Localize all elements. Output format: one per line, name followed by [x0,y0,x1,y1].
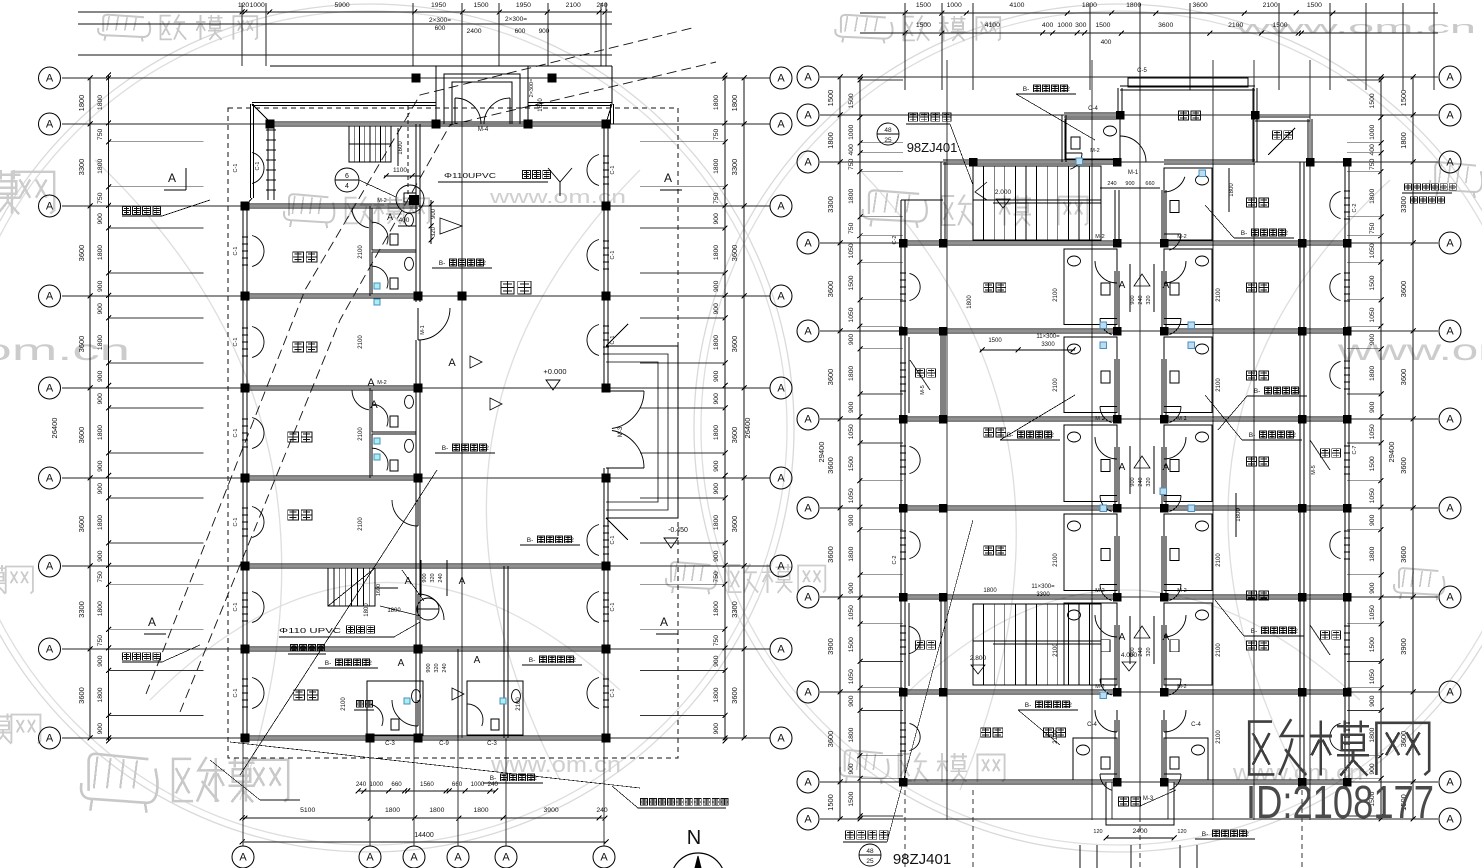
svg-text:A: A [46,733,54,745]
svg-text:3600: 3600 [77,336,86,353]
svg-text:120: 120 [1177,829,1186,835]
svg-text:1000: 1000 [471,781,485,788]
right plan top doors [1119,136,1121,162]
svg-text:1800: 1800 [473,807,488,814]
svg-text:900: 900 [97,550,104,562]
left plan window east at y340 [587,325,599,356]
svg-text:C-5: C-5 [1137,68,1147,74]
svg-text:3600: 3600 [826,546,835,563]
svg-text:2100: 2100 [1053,553,1059,567]
svg-text:1050: 1050 [1369,307,1376,322]
svg-text:1800: 1800 [983,588,997,594]
right plan balloon 48-25 top [877,123,899,145]
svg-text:A: A [398,658,405,669]
svg-text:A: A [1119,462,1126,473]
svg-text:A: A [1446,110,1454,122]
svg-text:C-1: C-1 [233,247,239,256]
svg-text:A: A [46,201,54,213]
left plan dim chain fine east [724,75,726,741]
svg-text:2: 2 [1245,831,1249,838]
right plan room label kefang 1258,292 [1247,283,1257,292]
svg-text:A: A [777,383,785,395]
svg-text:1560: 1560 [420,781,434,788]
svg-text:120: 120 [238,2,250,9]
svg-text:2: 2 [1294,628,1298,635]
left plan dim chain bottom mid [242,817,605,819]
right plan bath top [1065,119,1120,159]
svg-text:1500: 1500 [1399,90,1408,107]
svg-text:3300: 3300 [77,601,86,618]
right plan room label kefang 1190,120 [1179,111,1189,120]
svg-text:2×300=: 2×300= [429,17,451,24]
svg-text:900: 900 [1369,763,1376,775]
svg-text:2: 2 [482,260,486,267]
svg-text:B-: B- [527,537,534,544]
svg-text:3600: 3600 [730,427,739,444]
svg-text:A: A [1446,687,1454,699]
svg-text:M-1: M-1 [1128,170,1139,176]
svg-text:400: 400 [399,217,410,224]
svg-text:M-2: M-2 [1095,684,1104,690]
svg-text:3600: 3600 [1399,546,1408,563]
svg-text:900: 900 [713,460,720,472]
svg-text:C-1: C-1 [233,518,239,527]
svg-text:3900: 3900 [544,807,559,814]
svg-text:M-2: M-2 [1090,148,1099,154]
svg-text:29400: 29400 [817,442,826,463]
svg-text:1800: 1800 [713,687,720,702]
svg-text:1050: 1050 [848,307,855,322]
left plan bath bottom b [467,681,523,735]
svg-text:1800: 1800 [713,515,720,530]
svg-text:C-1: C-1 [233,603,239,612]
svg-text:1800: 1800 [848,366,855,381]
svg-text:1000: 1000 [848,125,855,140]
svg-text:A: A [777,119,785,131]
right plan room label kefang 1258,207 [1247,198,1257,207]
right plan row wall y331 east [1164,328,1347,330]
left plan stair lower [328,568,375,606]
svg-text:1500: 1500 [1272,22,1287,29]
left plan bath 2a [372,390,416,432]
left plan misc diagonal [240,470,437,775]
svg-text:A: A [660,615,668,629]
svg-text:900: 900 [1125,181,1134,187]
svg-text:240: 240 [1138,647,1144,656]
left plan detail balloon 6/4 [335,168,359,192]
right plan top balcony [1255,116,1310,118]
left plan room label kefang 306,700 [294,690,305,700]
svg-text:2: 2 [533,775,537,782]
svg-text:750: 750 [1369,158,1376,170]
svg-text:48: 48 [884,127,892,134]
svg-text:1800: 1800 [97,515,104,530]
svg-text:M-2: M-2 [377,198,386,204]
left plan nw eave outline [252,102,436,104]
watermark sofa top-mid [841,15,886,33]
svg-text:3300: 3300 [1399,196,1408,213]
svg-text:1800: 1800 [826,132,835,149]
watermark logo gap-mid [729,565,742,592]
svg-text:900: 900 [1369,334,1376,346]
svg-text:M-2: M-2 [1095,234,1104,240]
svg-text:1800: 1800 [429,807,444,814]
svg-text:1000: 1000 [1057,22,1072,29]
svg-text:900: 900 [431,208,437,219]
left plan window C-1 at y607 [252,592,264,623]
left plan window C-1 at y342 [252,327,264,358]
svg-text:1800: 1800 [97,245,104,260]
svg-text:1000: 1000 [1369,125,1376,140]
svg-text:240: 240 [596,807,608,814]
right plan top dims small [1100,187,1160,189]
watermark swoosh left [95,160,282,800]
left plan dim total bottom [242,841,606,843]
svg-text:98ZJ401: 98ZJ401 [907,140,958,155]
svg-text:1050: 1050 [1369,243,1376,258]
right plan balcony east 2 [1321,631,1330,639]
svg-text:C-1: C-1 [610,251,616,260]
svg-text:1800: 1800 [364,603,370,617]
svg-text:2.000: 2.000 [995,189,1012,196]
left plan grid vline x462 [461,66,463,738]
right plan east extension stubs [1347,79,1381,81]
right plan room label kefang 1055,737 [1044,728,1054,737]
svg-text:2: 2 [1068,702,1072,709]
watermark sofa top-left [103,15,144,32]
watermark sofa mid-left-plan [289,194,328,215]
svg-text:C-1: C-1 [610,536,616,545]
svg-text:1500: 1500 [1369,275,1376,290]
svg-text:900: 900 [848,514,855,526]
right plan room label kefang 992,737 [981,728,991,737]
svg-text:C-1: C-1 [255,162,261,171]
svg-text:3600: 3600 [730,336,739,353]
svg-text:M-2: M-2 [1177,234,1186,240]
svg-text:A: A [46,473,54,485]
svg-text:3600: 3600 [730,687,739,704]
svg-text:240: 240 [1138,477,1144,486]
svg-text:2100: 2100 [358,427,364,441]
svg-text:300: 300 [1075,22,1087,29]
left plan horizontal grid lines [62,77,770,79]
right plan room label kefang 995,437 [984,428,994,437]
svg-text:900: 900 [848,334,855,346]
right plan interior grid vlines [946,60,948,820]
svg-text:A: A [1446,503,1454,515]
svg-text:A: A [1446,238,1454,250]
svg-text:B-: B- [529,657,536,664]
svg-text:320: 320 [1146,477,1152,486]
left plan window east at y607 [587,592,599,623]
svg-text:A: A [777,561,785,573]
svg-text:3600: 3600 [77,427,86,444]
svg-text:-0.450: -0.450 [668,527,688,534]
svg-text:A: A [804,814,812,826]
watermark sofa mid-right-plan [869,190,919,214]
svg-text:320: 320 [1146,295,1152,304]
watermark sofa gap-mid [671,562,710,582]
left plan room divider wall y566 [245,563,606,565]
svg-text:900: 900 [713,213,720,225]
svg-text:2: 2 [1297,388,1301,395]
left plan east door M-3 [606,390,644,392]
svg-text:29400: 29400 [1387,442,1396,463]
svg-text:3300: 3300 [77,159,86,176]
right plan row wall y331 west [903,328,1117,330]
left plan bath 2b [372,434,416,476]
left plan lobby label datang [501,281,514,294]
svg-text:A: A [46,291,54,303]
svg-text:www.om.cn: www.om.cn [1233,18,1476,37]
svg-text:2100: 2100 [1053,643,1059,657]
svg-text:M-2: M-2 [377,380,386,386]
svg-text:1800: 1800 [713,425,720,440]
svg-text:2×300=: 2×300= [505,16,527,23]
right plan top bath block [1061,115,1063,162]
svg-text:1800: 1800 [1369,366,1376,381]
svg-text:900: 900 [713,723,720,735]
watermark sofa bottom-left [89,754,149,791]
left plan canopy door M-4 [454,98,456,124]
svg-text:2100: 2100 [1053,730,1059,744]
left plan bottom axis circles [232,846,254,868]
svg-text:320: 320 [1146,647,1152,656]
svg-text:B-: B- [325,660,332,667]
right plan bath R y603 [1164,603,1212,685]
left plan note xiangjianshi5 a [123,207,131,215]
right plan bath bottom R [1164,738,1208,780]
svg-text:3600: 3600 [826,731,835,748]
left plan room divider wall y206 [245,203,418,205]
right plan row wall y243 east [1164,240,1347,242]
svg-text:900: 900 [848,695,855,707]
svg-text:B-: B- [1254,388,1261,395]
left plan room divider wall y649 [245,646,606,648]
svg-text:A: A [1446,414,1454,426]
svg-text:900: 900 [1369,401,1376,413]
right plan bath L y337 [1064,337,1117,412]
svg-text:A: A [804,72,812,84]
right plan row wall y692 east [1164,689,1347,691]
right plan bath L y249 [1064,249,1117,324]
right plan stair lower [973,604,1101,685]
svg-text:1800: 1800 [713,601,720,616]
svg-text:1800: 1800 [1229,183,1235,197]
svg-text:2100: 2100 [1216,553,1222,567]
left plan nw window bay [267,124,269,200]
svg-text:A: A [168,171,176,185]
svg-text:1500: 1500 [1307,2,1322,9]
svg-text:750: 750 [97,129,104,141]
watermark sofa right-edge [1399,568,1438,588]
svg-text:+0.000: +0.000 [543,367,566,376]
svg-text:1500: 1500 [916,22,931,29]
svg-text:1800: 1800 [848,546,855,561]
svg-text:2: 2 [368,660,372,667]
svg-text:900: 900 [426,663,432,672]
svg-text:3300: 3300 [730,601,739,618]
svg-text:1500: 1500 [988,338,1002,344]
svg-text:A: A [1163,462,1170,473]
svg-text:A: A [454,852,462,864]
svg-text:A: A [366,852,374,864]
svg-text:A: A [804,157,812,169]
svg-text:C-9: C-9 [439,741,449,747]
svg-text:2100: 2100 [1053,288,1059,302]
svg-text:Φ110 UPVC: Φ110 UPVC [279,628,341,635]
svg-text:A: A [804,592,812,604]
svg-text:B-: B- [1023,86,1030,93]
svg-text:98ZJ401: 98ZJ401 [893,851,951,868]
svg-text:1800: 1800 [1369,727,1376,742]
svg-text:2.800: 2.800 [970,655,987,662]
svg-text:A: A [600,852,608,864]
left plan east extension stubs [640,141,725,143]
svg-text:B-: B- [1241,230,1248,237]
left plan room label kefang 305,262 [293,252,304,262]
svg-text:3900: 3900 [826,638,835,655]
right plan balcony top label [1273,131,1282,139]
svg-text:2100: 2100 [516,697,522,711]
svg-text:1050: 1050 [848,243,855,258]
right plan row wall y508 east [1164,505,1347,507]
right plan note right edge [1405,184,1412,191]
left plan room divider wall y296 [245,293,418,295]
svg-text:2100: 2100 [358,335,364,349]
svg-text:A: A [474,655,481,666]
svg-text:1950: 1950 [431,2,446,9]
right plan bath R y425 [1164,425,1212,501]
svg-text:M-2: M-2 [1177,416,1186,422]
right plan corridor doors [1116,261,1118,283]
watermark logo mid-right-plan [942,196,956,225]
right plan top room east wall [1252,88,1254,162]
left plan lower vertical wall x506 [503,566,505,738]
svg-text:1500: 1500 [1369,637,1376,652]
svg-text:1500: 1500 [826,90,835,107]
svg-text:1100: 1100 [393,167,407,174]
svg-text:M-1: M-1 [420,325,426,334]
svg-text:A: A [1446,777,1454,789]
svg-text:1800: 1800 [967,295,973,309]
svg-text:600: 600 [435,25,446,32]
svg-text:A: A [1119,280,1126,291]
svg-text:2100: 2100 [1216,288,1222,302]
svg-text:1800: 1800 [385,807,400,814]
watermark logo top-left [161,16,172,40]
right plan room label kefang 995,292 [984,283,994,292]
svg-text:900: 900 [713,483,720,495]
svg-text:Φ110UPVC: Φ110UPVC [444,173,496,180]
svg-text:B-: B- [442,445,449,452]
svg-text:900: 900 [713,280,720,292]
right plan bath row2 [1164,168,1212,240]
svg-text:3300: 3300 [1036,592,1050,598]
left plan dim chain top [78,11,612,13]
svg-text:4100: 4100 [985,22,1000,29]
right plan room label kefang 1258,650 [1247,641,1257,650]
svg-text:1800: 1800 [713,159,720,174]
right plan stair west wall [940,162,942,243]
svg-text:900: 900 [97,460,104,472]
svg-text:A: A [448,357,456,369]
svg-text:900: 900 [97,280,104,292]
right plan south balcony [1106,782,1174,825]
svg-text:1800: 1800 [77,95,86,112]
svg-text:1050: 1050 [848,488,855,503]
svg-text:320: 320 [431,226,437,237]
right plan bath R y337 [1164,337,1212,412]
svg-text:1500: 1500 [848,275,855,290]
left plan dim chain totals west [89,78,91,738]
svg-text:1800: 1800 [713,95,720,110]
svg-text:w.om.cn: w.om.cn [0,334,130,367]
svg-text:1800: 1800 [1399,132,1408,149]
left plan room divider wall y478 [245,475,418,477]
svg-text:www.om: www.om [1336,334,1482,367]
svg-text:2400: 2400 [466,28,481,35]
brand logo omw [1249,722,1274,775]
right plan window arcs east [1330,191,1341,218]
right plan dim chain top row1 [860,12,1438,14]
svg-text:900: 900 [713,370,720,382]
left plan east wall upper [603,124,605,391]
right plan bath R y249 [1164,249,1212,324]
svg-text:1500: 1500 [916,2,931,9]
svg-text:2100: 2100 [358,245,364,259]
watermark logo top-mid [904,17,915,41]
svg-text:A: A [46,383,54,395]
right plan room label kefang 1258,466 [1247,457,1257,466]
svg-text:2100: 2100 [341,697,347,711]
right plan axis circles east [1439,66,1461,88]
svg-text:750: 750 [713,635,720,647]
svg-text:750: 750 [713,571,720,583]
svg-text:660: 660 [391,781,402,788]
svg-text:3600: 3600 [826,369,835,386]
svg-text:900: 900 [1130,295,1136,304]
svg-text:1500: 1500 [848,637,855,652]
right plan dim chain fine east [1380,77,1382,819]
left plan top vertical grid stubs [241,3,243,66]
right plan note huchuang top [909,113,918,121]
left plan top wall [270,121,606,123]
left plan window C-1 at y522 [252,507,264,538]
left plan bottom vertical grid stubs [242,738,244,846]
svg-text:240: 240 [488,781,499,788]
svg-text:C-1: C-1 [610,603,616,612]
svg-text:26400: 26400 [743,418,752,439]
svg-text:M-5: M-5 [920,385,926,394]
svg-text:400: 400 [1042,22,1054,29]
right plan row wall y508 west [903,505,1117,507]
left plan south wall [245,735,606,737]
svg-text:A: A [777,73,785,85]
svg-text:1500: 1500 [848,93,855,108]
right plan bath L y603 [1064,603,1117,685]
right plan columns [939,239,948,248]
svg-text:A: A [804,777,812,789]
svg-text:1000: 1000 [369,781,383,788]
left plan dim chain fine west [108,75,110,741]
right plan balcony west 1 [942,331,944,419]
svg-text:1800: 1800 [97,335,104,350]
svg-text:320: 320 [430,573,436,582]
svg-text:1800: 1800 [97,687,104,702]
left plan west wall [242,205,244,738]
left plan bottom note weiqiang [357,701,364,708]
